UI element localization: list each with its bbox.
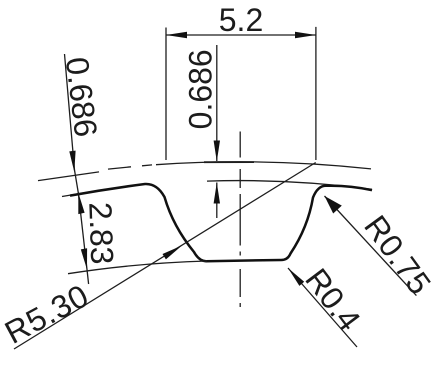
leader R0.4 arrow bbox=[288, 268, 304, 286]
svg-text:2.83: 2.83 bbox=[82, 202, 120, 265]
svg-text:R0.75: R0.75 bbox=[357, 209, 434, 302]
dim 5.2 extension line right bbox=[315, 27, 317, 160]
svg-text:R0.4: R0.4 bbox=[298, 262, 367, 338]
pitch line dash-dot left extension bbox=[38, 172, 99, 181]
leader R5.30 arrow bbox=[163, 246, 183, 260]
dim 0.686 center arrow down bbox=[214, 141, 220, 162]
dim 5.2 arrow left bbox=[166, 32, 187, 38]
dim 0.686 center dimension line upper bbox=[216, 45, 218, 161]
leader R0.75 arrow bbox=[325, 196, 342, 214]
land line left extension bbox=[62, 189, 105, 196]
svg-text:5.2: 5.2 bbox=[219, 2, 263, 38]
svg-text:0.686: 0.686 bbox=[183, 49, 219, 129]
centerline dash 3 bbox=[239, 194, 241, 246]
pitch line dash segment 3 bbox=[142, 164, 152, 167]
dim 0.686 center dimension line lower bbox=[216, 183, 218, 219]
dim 2.83 arrow down bbox=[81, 248, 87, 269]
centerline dash 5 bbox=[239, 269, 241, 297]
leader R5.30 bbox=[14, 163, 316, 350]
centerline dot 6 bbox=[239, 303, 241, 307]
dim 0.686 left arrow down bbox=[69, 151, 75, 172]
leader R0.4 bbox=[288, 268, 357, 347]
centerline (vertical dash-dot) bbox=[239, 132, 241, 158]
dim 0.686 left dimension line bbox=[65, 54, 79, 194]
centerline dot 4 bbox=[239, 252, 241, 256]
dim 5.2 dimension line bbox=[166, 34, 316, 36]
dim 2.83 dimension line bbox=[78, 193, 88, 285]
pitch line overlap dash (thicker segment near centerline) bbox=[204, 161, 254, 163]
pitch line arc (thin solid across groove) bbox=[156, 162, 371, 169]
land line thin across groove bbox=[207, 181, 372, 190]
dim 5.2 arrow right bbox=[295, 32, 316, 38]
centerline dash 2 bbox=[239, 169, 241, 188]
belt tooth profile bbox=[70, 184, 372, 261]
dim 2.83 arrow up bbox=[78, 193, 84, 215]
dim 0.686 center arrow up bbox=[214, 183, 220, 204]
svg-text:R5.30: R5.30 bbox=[0, 277, 95, 351]
leader R0.75 bbox=[325, 196, 417, 296]
dim 5.2 extension line left bbox=[165, 28, 167, 161]
svg-text:0.686: 0.686 bbox=[59, 55, 104, 139]
pitch line dash segment 2 bbox=[108, 167, 131, 169]
dim 2.83 bottom extension line bbox=[68, 261, 207, 274]
